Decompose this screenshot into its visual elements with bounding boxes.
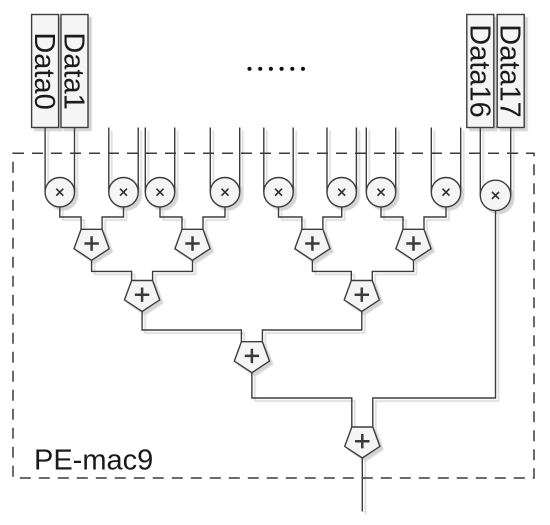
wire A2 to adder B1 <box>153 260 193 280</box>
input box Data1 <box>58 15 90 128</box>
wire C1 to final adder D1 <box>252 373 352 427</box>
adder A2 <box>175 229 210 260</box>
adder C1 <box>234 342 269 373</box>
multiplier M9 <box>480 180 510 210</box>
output wire <box>361 458 363 512</box>
wire M1 to adder A1 <box>60 207 81 229</box>
wire M2 to adder A1 <box>102 207 123 229</box>
adder A4 <box>396 229 431 260</box>
multiplier M5 <box>264 178 293 207</box>
input box Data0 <box>28 15 60 128</box>
svg-text:Data16: Data16 <box>463 24 495 118</box>
svg-text:PE-mac9: PE-mac9 <box>34 445 153 477</box>
multiplier M7 input wires <box>366 128 395 193</box>
adder A3 <box>295 229 330 260</box>
multiplier M2 input wires <box>109 128 138 193</box>
wire M3 to adder A2 <box>160 207 182 229</box>
wire M4 to adder A2 <box>203 207 225 229</box>
wire M8 to adder A4 <box>424 207 446 229</box>
multiplier M8 <box>431 178 460 207</box>
multiplier M1 <box>45 178 74 207</box>
multiplier M8 input wires <box>431 128 460 193</box>
multiplier M2 <box>109 178 138 207</box>
multiplier M3 <box>145 178 174 207</box>
multiplier M5 input wires <box>264 128 293 193</box>
wire A4 to adder B2 <box>372 260 413 280</box>
svg-text:Data17: Data17 <box>494 24 526 118</box>
wire B2 to adder C1 <box>262 312 361 342</box>
adder B1 <box>125 281 160 312</box>
adder B2 <box>344 281 379 312</box>
multiplier M6 <box>327 178 356 207</box>
multiplier M7 <box>366 178 395 207</box>
multiplier M9 input wires <box>480 128 510 196</box>
ellipsis dots for omitted inputs <box>247 67 305 71</box>
svg-text:Data1: Data1 <box>58 32 90 109</box>
wire A1 to adder B1 <box>92 260 132 280</box>
input box Data16 <box>463 15 495 128</box>
adder A1 <box>74 229 109 260</box>
multiplier M4 input wires <box>210 128 239 193</box>
final adder D1 <box>345 427 380 458</box>
wire M5 to adder A3 <box>279 207 302 229</box>
multiplier M1 input wires <box>45 128 74 193</box>
wire M6 to adder A3 <box>323 207 342 229</box>
PE-mac9 dashed boundary box <box>13 153 534 478</box>
wire A3 to adder B2 <box>312 260 351 280</box>
wire B1 to adder C1 <box>142 312 241 342</box>
wire M9 to final adder D1 <box>373 211 496 427</box>
wire M7 to adder A4 <box>381 207 403 229</box>
svg-text:Data0: Data0 <box>28 32 60 109</box>
input box Data17 <box>494 15 526 128</box>
multiplier M6 input wires <box>327 128 356 193</box>
multiplier M4 <box>210 178 239 207</box>
multiplier M3 input wires <box>145 128 174 193</box>
